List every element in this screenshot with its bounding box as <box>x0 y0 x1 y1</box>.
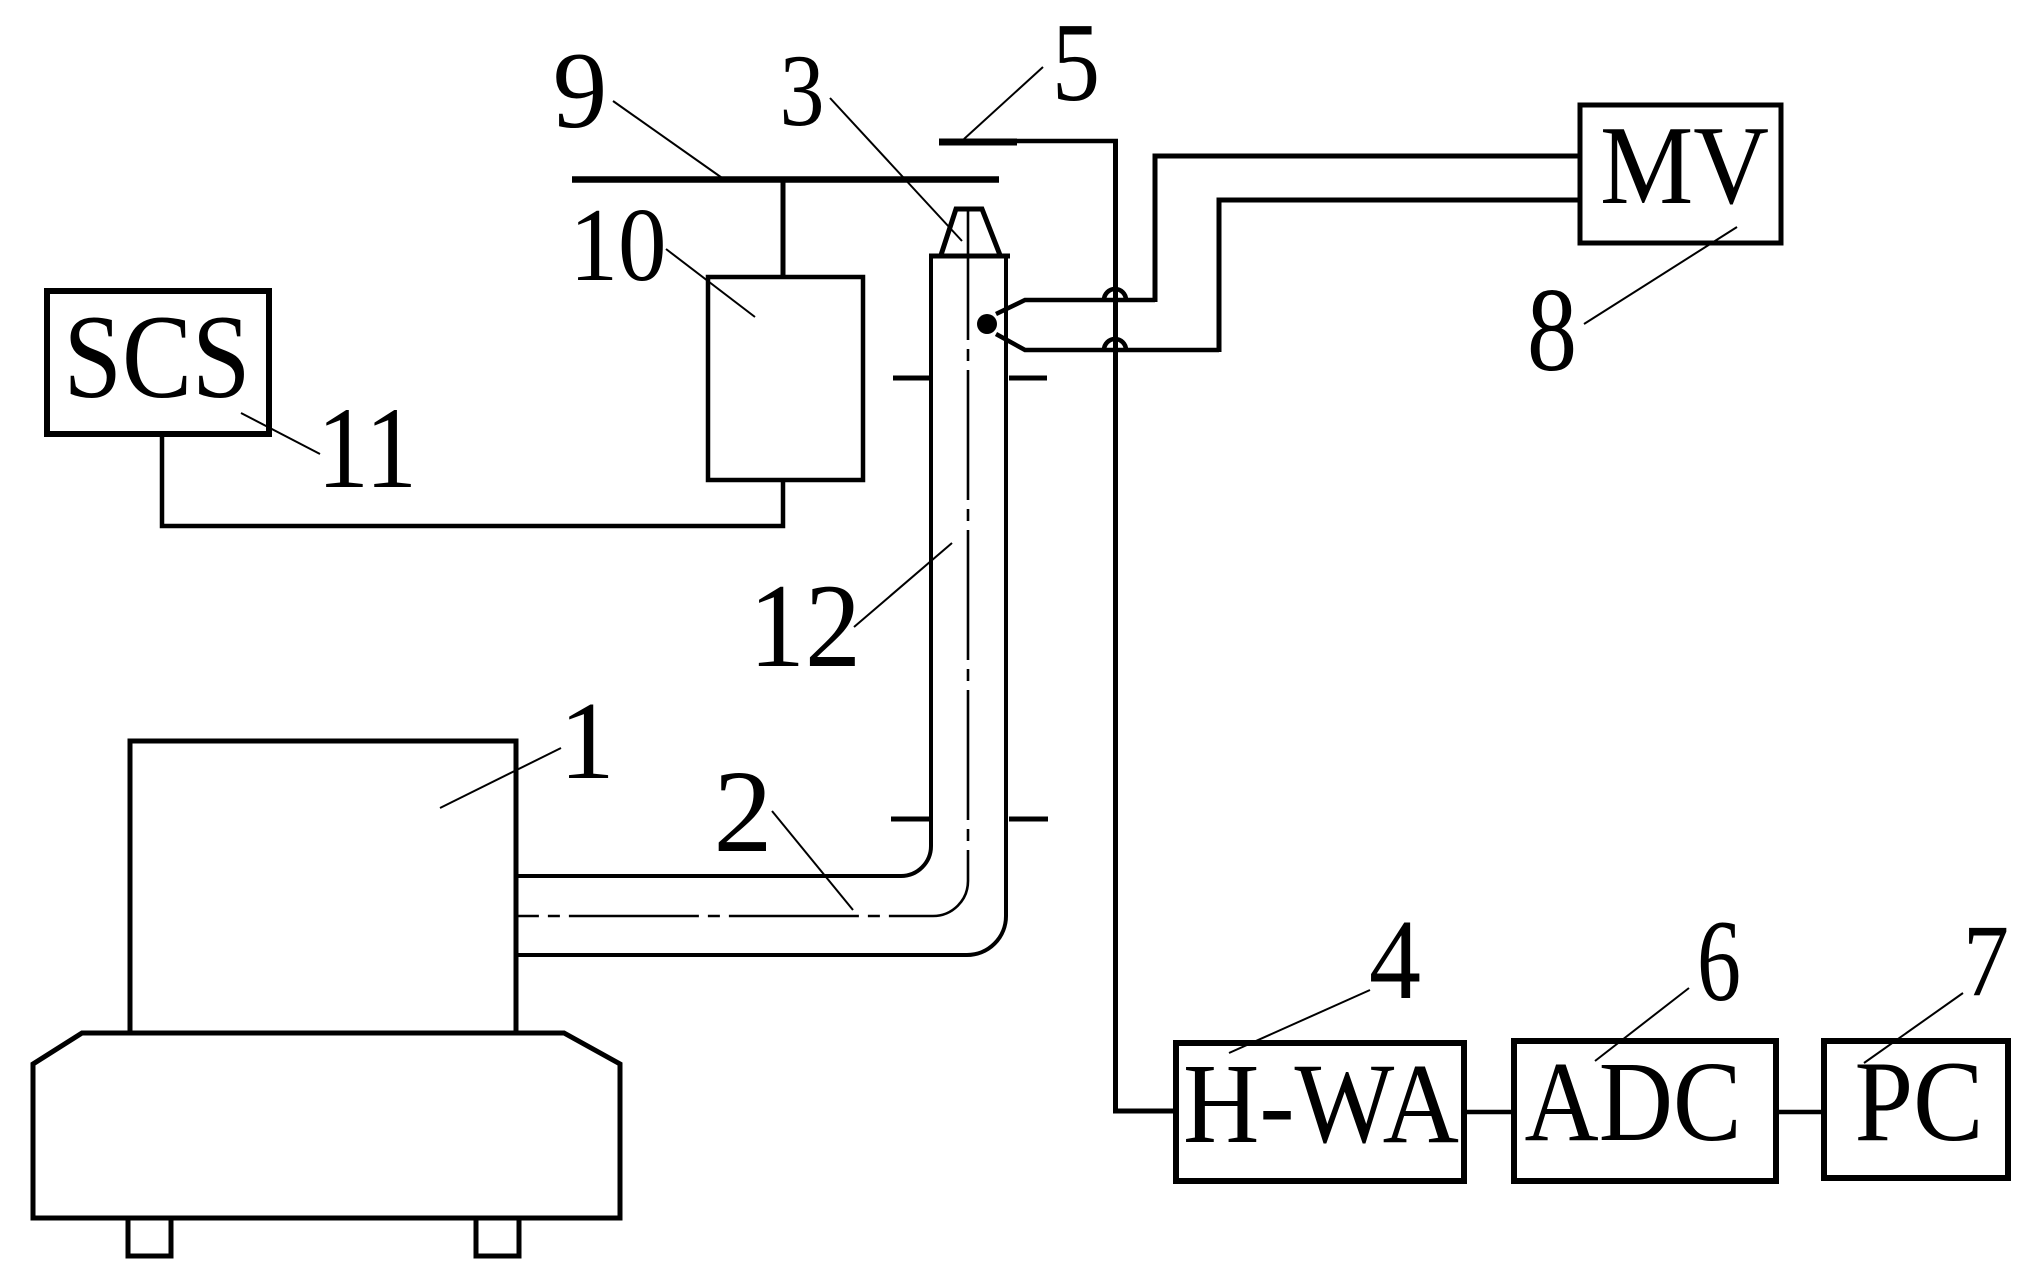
svg-text:10: 10 <box>570 186 667 303</box>
box 10 (actuator) <box>708 277 863 480</box>
SCS box 11 <box>47 291 269 434</box>
machine left foot <box>128 1218 171 1256</box>
leader 10 <box>666 249 755 317</box>
nozzle 3 <box>941 209 1000 255</box>
hot-wire sensor dot <box>977 314 997 334</box>
leader 7 <box>1864 993 1963 1063</box>
svg-text:5: 5 <box>1052 1 1100 125</box>
probe upper prong wire (with jump over vertical line) <box>996 300 1155 314</box>
svg-text:H-WA: H-WA <box>1183 1040 1459 1167</box>
ADC box 6 <box>1514 1041 1776 1181</box>
machine base pedestal <box>33 1033 620 1218</box>
pipe 2 upper/inner wall <box>516 256 931 876</box>
main vertical wire to H-WA <box>1116 141 1177 1111</box>
svg-text:2: 2 <box>714 746 773 877</box>
svg-text:ADC: ADC <box>1525 1038 1742 1165</box>
leader 3 <box>830 98 962 241</box>
wire box10 to SCS <box>162 434 783 526</box>
svg-text:SCS: SCS <box>64 290 251 423</box>
lower flange right tick <box>1009 817 1048 822</box>
upper flange right tick <box>1009 376 1047 381</box>
wire probe upper to MV <box>1155 156 1580 302</box>
leader 2 <box>772 811 853 910</box>
pipe/tube dash-dot centerline <box>516 210 968 916</box>
wire probe lower to MV <box>1219 200 1580 352</box>
leader 12 <box>854 543 952 627</box>
wire H-WA to ADC <box>1464 1110 1514 1115</box>
probe lower prong wire (with jump over vertical line) <box>996 334 1219 350</box>
svg-text:4: 4 <box>1369 896 1421 1023</box>
svg-text:1: 1 <box>559 680 615 803</box>
rod from bar 9 down to box 10 <box>781 182 786 279</box>
machine right foot <box>476 1218 519 1256</box>
tube 12 top edge <box>929 254 1010 259</box>
leader 11 <box>241 413 320 454</box>
svg-text:12: 12 <box>749 559 861 692</box>
pipe 2 lower/outer wall <box>516 256 1006 955</box>
mounting bar 9 <box>572 176 999 183</box>
leader 8 <box>1584 227 1737 324</box>
compressor unit 1 (machine body) <box>130 741 516 1033</box>
impact plate 5 <box>939 139 1017 146</box>
svg-text:8: 8 <box>1527 263 1577 396</box>
svg-text:11: 11 <box>317 384 417 513</box>
lower flange left tick <box>891 817 931 822</box>
svg-text:6: 6 <box>1697 897 1741 1026</box>
leader 4 <box>1229 990 1370 1053</box>
svg-text:7: 7 <box>1963 904 2009 1018</box>
svg-text:3: 3 <box>780 34 825 148</box>
svg-text:MV: MV <box>1600 104 1769 228</box>
leader 9 <box>613 101 725 180</box>
leader 1 <box>440 748 561 808</box>
leader 6 <box>1595 988 1689 1061</box>
svg-text:9: 9 <box>553 30 608 151</box>
PC box 7 <box>1824 1041 2008 1178</box>
upper flange left tick <box>893 376 931 381</box>
leader 5 <box>964 67 1043 139</box>
MV box 8 <box>1580 105 1781 243</box>
wire plate to main vertical line <box>1017 139 1118 144</box>
H-WA box 4 <box>1176 1043 1464 1181</box>
wire ADC to PC <box>1776 1110 1824 1115</box>
